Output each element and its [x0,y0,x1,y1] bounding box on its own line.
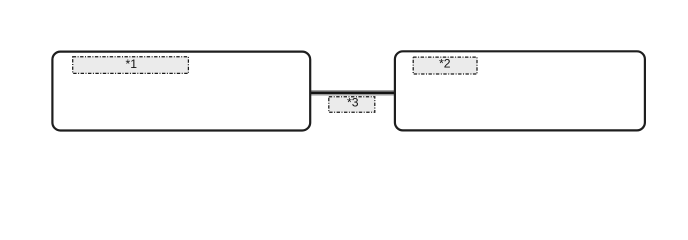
label *1 [73,57,189,74]
label *2 [413,57,477,74]
svg-text:*2: *2 [439,57,451,71]
node box 1 [52,52,310,131]
svg-text:*1: *1 [126,57,138,71]
label *3 [329,96,375,113]
node box 2 [395,51,645,130]
svg-text:*3: *3 [347,96,359,110]
wire [310,90,397,95]
